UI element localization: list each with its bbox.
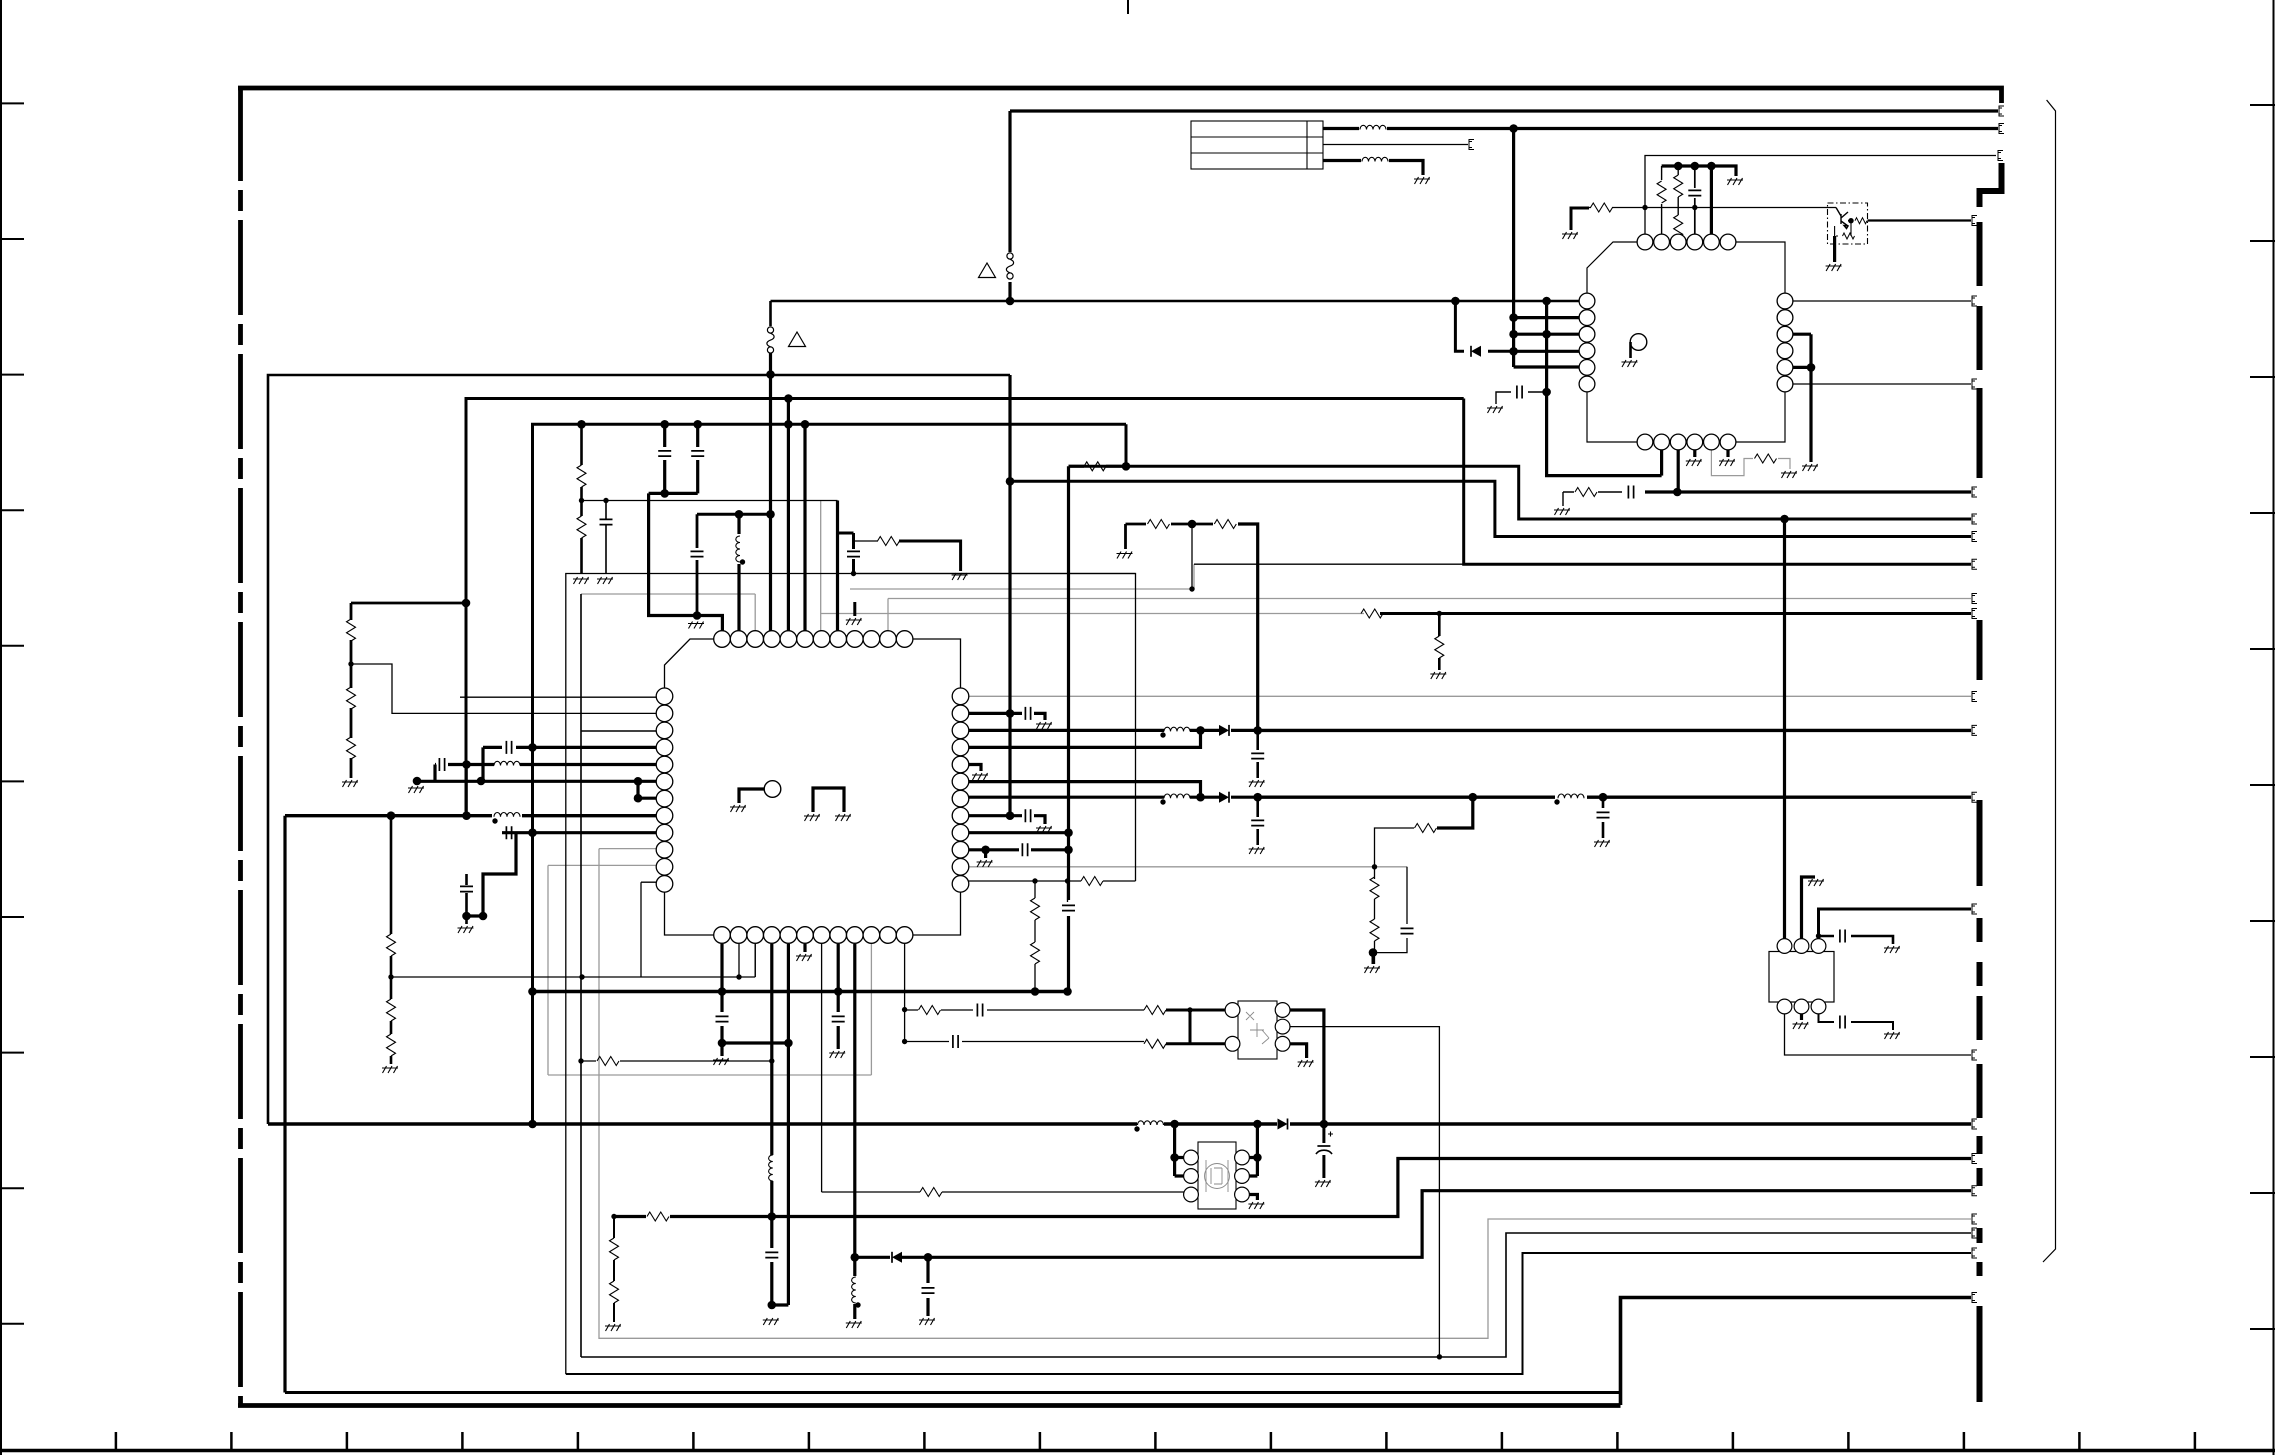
- wire pin8 drop: [836, 501, 839, 640]
- ground G-IC3b3: [1884, 1032, 1900, 1039]
- wire y573 thin tail: [854, 573, 1136, 575]
- wire IC3 cap t3: [1819, 936, 1894, 944]
- capacitor C-x1257b: [1251, 820, 1264, 825]
- wire row828: [467, 833, 657, 916]
- ground G-pin2r: [1036, 722, 1052, 729]
- wire y207 net: [1571, 208, 1836, 231]
- wire x614 divider: [613, 1217, 615, 1323]
- wire y486 bus: [1010, 481, 1971, 536]
- wire pin1-left thin: [460, 696, 656, 698]
- resistor R-y879: [1081, 877, 1103, 886]
- resistor R-y207: [1591, 203, 1613, 212]
- capacitor C-y1041: [953, 1035, 958, 1048]
- capacitor C-y485: [1628, 486, 1633, 499]
- wire y1257 to staircase: [928, 1191, 1971, 1258]
- wire IC2 top bus y166: [1662, 166, 1736, 176]
- ground G-x614: [605, 1324, 621, 1331]
- ground G-x606: [597, 577, 613, 584]
- capacitor C-pin8b: [832, 1016, 845, 1021]
- wire gray bus y598.5: [888, 598, 1971, 600]
- wire y1124 bus: [268, 1122, 1971, 1125]
- resistor R-t3a: [1674, 175, 1683, 197]
- wire IC1 right pin5 gnd: [968, 765, 981, 772]
- wire y977 thin: [391, 944, 755, 977]
- resistor R-y524a: [1148, 520, 1170, 529]
- IC2 pins left: [1579, 293, 1595, 392]
- wire R541 row: [854, 540, 879, 542]
- wire IC3 pin t3 net y909: [1819, 909, 1972, 939]
- wire IC1 bottom pin7 thin y1192: [822, 944, 1184, 1192]
- wire IC2 pin5 row: [1514, 365, 1587, 368]
- capacitor C-x1068: [1062, 905, 1075, 910]
- wire gray bus y589: [850, 564, 1194, 589]
- resistor R-y459 gray: [1755, 454, 1777, 463]
- GRAYNETS: [268, 111, 1998, 1405]
- resistor R-y524b: [1214, 520, 1236, 529]
- wire cap x466: [465, 765, 468, 925]
- wire inner border y375/x268: [268, 375, 1010, 1124]
- ground G-b4: [1686, 459, 1702, 466]
- wire y729 bus right: [1258, 729, 1971, 732]
- wire y613 thick right: [1380, 612, 1971, 615]
- wire pin12-left thin: [641, 882, 656, 977]
- ground G-Q201: [1826, 264, 1842, 271]
- wire IC1 right pin2 cap gnd: [968, 713, 1045, 720]
- IC1 main QFP body: [665, 639, 961, 935]
- wire x1546 drop: [1547, 301, 1662, 476]
- inductor L-row762: [494, 761, 520, 765]
- ground G-pin4b: [763, 1318, 779, 1325]
- wire y494 seg: [649, 492, 698, 495]
- wire row745: [483, 747, 656, 781]
- ground G-x1603: [1594, 840, 1610, 847]
- wire x697 filter: [696, 514, 699, 613]
- wire IC2 left bus x1513: [1512, 129, 1515, 368]
- wire IC2 bottom pin3: [1677, 449, 1680, 492]
- wire IC1 right pin3 row: [968, 729, 1258, 732]
- wire opto2 gnd: [1250, 1195, 1258, 1201]
- wire IC1 right pin7 row: [968, 796, 1258, 799]
- resistor R-y468: [1084, 462, 1106, 471]
- ground G-pin6b: [796, 954, 812, 961]
- optocoupler PC1 body: [1238, 1001, 1277, 1059]
- resistor R-x351b: [347, 687, 356, 709]
- resistor R-opto1b: [1144, 1039, 1166, 1048]
- wire IC1 pin1 top path: [649, 493, 723, 639]
- ground G-y541: [952, 573, 968, 580]
- wire switch SW2 drop: [1008, 111, 1011, 301]
- wire IC2 pin2 row: [1514, 316, 1587, 319]
- wire gray top-box y594: [581, 594, 755, 639]
- wire pin5 drop: [787, 399, 790, 640]
- wire IC1 right pin10 cap: [968, 850, 1069, 858]
- resistor R-x614b: [610, 1281, 619, 1303]
- wire IC3 pin b1 thin: [1785, 1014, 1972, 1055]
- wire x285 vertical: [283, 816, 286, 1393]
- capacitor C-y1010: [977, 1004, 982, 1017]
- wire opto1 out thin x1439: [1290, 1027, 1439, 1357]
- wire R1126 gnd leg: [1126, 524, 1258, 549]
- wire R828 thin lead: [1375, 828, 1415, 867]
- wire y505 thin: [582, 500, 838, 502]
- wire pin8 cap branch: [838, 533, 854, 574]
- wire IC1 bottom pin5: [787, 944, 790, 1305]
- inductor L-pin4b: [769, 1155, 773, 1181]
- IC3 small body: [1769, 952, 1834, 1003]
- IC1 pins right: [952, 688, 969, 892]
- capacitor C-pin1b: [716, 1016, 729, 1021]
- sheet border right hook: [1980, 163, 2002, 207]
- resistor R-x391a: [387, 934, 396, 956]
- PC2 internal mosfet: [1205, 1160, 1230, 1192]
- wire IC2 pin3 row: [1514, 333, 1587, 336]
- resistor R-x581b: [577, 516, 586, 538]
- ground G-x466: [458, 926, 474, 933]
- wire gray y865 from IC pin11: [968, 866, 1407, 868]
- wire IC1 right pin12 thin y879: [968, 880, 1136, 882]
- inductor L-row811: [494, 813, 520, 817]
- crystal X-IC2: [1757, 299, 1771, 313]
- ground G-pin9b: [846, 1321, 862, 1328]
- ground G-IC2r: [1802, 464, 1818, 471]
- wire IC1 right pin8 cap gnd: [968, 816, 1045, 824]
- wire y1217 net: [614, 1159, 1971, 1217]
- wire y144 thin: [1323, 144, 1468, 146]
- ground G-row778: [408, 786, 424, 793]
- wire x606 stubs: [605, 501, 607, 575]
- resistor R-y1010: [919, 1006, 941, 1015]
- ground G y161: [1414, 177, 1430, 184]
- wire x1257 caps: [1256, 730, 1259, 845]
- diode D-pin3r: [1219, 725, 1229, 736]
- PC2 pins: [1184, 1150, 1250, 1202]
- wire IC2 bottom pins45 gnd stubs: [1695, 449, 1728, 457]
- ground G-x581: [573, 577, 589, 584]
- capacitor C-row745: [506, 741, 511, 754]
- wire y564 thin link: [1194, 563, 1464, 565]
- wire y485 net: [1645, 490, 1971, 493]
- resistor R-t3b: [1674, 215, 1683, 237]
- wire IC2 pin t2: [1661, 166, 1663, 234]
- wire net SW1 y301: [771, 300, 1588, 303]
- capacitor C-x697b: [691, 551, 704, 556]
- capacitor C-pin10r: [1022, 843, 1027, 856]
- wire opto1 input thick jog: [1166, 1010, 1225, 1044]
- capacitor C-x1257a: [1251, 753, 1264, 758]
- wire IC3 pin t2 gnd: [1802, 877, 1816, 939]
- ground G-x1126: [1117, 552, 1133, 559]
- capacitor C-IC3b3: [1840, 1016, 1845, 1029]
- IC2 internal rho symbol: [1630, 334, 1647, 358]
- wire row778: [417, 781, 656, 798]
- inductor L-x739: [736, 536, 740, 562]
- capacitor C-x928: [922, 1288, 935, 1293]
- resistor R-x1035b: [1031, 942, 1040, 964]
- inductor L-y1124: [1138, 1121, 1164, 1125]
- resistor R-x391c: [387, 1034, 396, 1056]
- resistor R-y828: [1415, 824, 1437, 833]
- switch SW2: [1006, 253, 1013, 279]
- resistor R-x1374a: [1370, 877, 1379, 899]
- wire x1068 vertical: [1067, 466, 1070, 991]
- relay PC2 body: [1198, 1142, 1236, 1209]
- ground G-pin8r: [1036, 826, 1052, 833]
- wire y1061 thin: [581, 1060, 772, 1062]
- capacitor C-row828: [506, 826, 511, 839]
- wire y155 thin to edge: [1645, 156, 1996, 235]
- inductor L-pin7r: [1164, 794, 1190, 798]
- ground G-IC2l: [1487, 406, 1503, 413]
- inductor L-pin9b: [852, 1277, 856, 1303]
- connector CN top box: [1191, 121, 1323, 169]
- wire y468 bus: [1069, 424, 1972, 519]
- resistor R-y1216: [647, 1212, 669, 1221]
- inductor L y128: [1360, 125, 1386, 129]
- symbol triangle SW2: [979, 263, 996, 278]
- resistor R-x1035a: [1031, 898, 1040, 920]
- resistor R-opto1a: [1144, 1006, 1166, 1015]
- wire IC1 bottom pin1: [722, 944, 788, 1056]
- wire R-x1439 drop: [1438, 614, 1441, 671]
- ground G-x697: [688, 622, 704, 629]
- wire x581 stubs: [580, 424, 583, 574]
- wire box1 thin: [566, 574, 1136, 1375]
- resistor R-x391b: [387, 999, 396, 1021]
- switch SW1: [767, 327, 774, 353]
- ground G-IC3t2: [1808, 879, 1824, 886]
- resistor R-y485: [1575, 488, 1597, 497]
- IC2 pins bottom: [1637, 434, 1736, 450]
- wire pin6 drop: [803, 424, 806, 639]
- wire opto1 gnd: [1290, 1044, 1307, 1058]
- wire IC1 right pin4 row: [968, 730, 1201, 747]
- resistor R-y613: [1361, 609, 1383, 618]
- wire IC2 right pin1: [1793, 300, 1971, 302]
- capacitor C-row762: [439, 758, 444, 771]
- wire IC2 pin4 row: [1514, 350, 1587, 353]
- capacitor C-x1603: [1597, 812, 1610, 817]
- capacitor C-x697a: [691, 451, 704, 456]
- PC1 pins: [1225, 1003, 1290, 1052]
- sheet border dash-dot left: [238, 86, 243, 1405]
- ground G-x351: [342, 780, 358, 787]
- wire y424 bus: [533, 424, 1127, 1124]
- IC2 pins right: [1777, 293, 1793, 392]
- inductor L-y797: [1558, 794, 1584, 798]
- wire IC1 bottom pin12 RC rows: [905, 944, 1144, 1042]
- ground G-pin1b: [713, 1058, 729, 1065]
- wire left R chain x351: [351, 603, 466, 778]
- wire cap el x1324: [1322, 1124, 1325, 1178]
- wire thin x392 jog to pin2: [351, 664, 656, 713]
- sheet border top: [238, 88, 2002, 103]
- wire pin9 gnd stub: [853, 602, 856, 616]
- capacitor C-x466: [460, 886, 473, 891]
- wire y398 bus: [466, 399, 1464, 816]
- wire y564 to edge: [1464, 399, 1971, 565]
- wire IC1 bottom pin4: [772, 944, 789, 1305]
- wire IC3 pin b3 cap: [1819, 1014, 1894, 1030]
- capacitor C-x1407: [1401, 928, 1414, 933]
- wire R x1035 divider: [1034, 881, 1036, 992]
- wire y128: [1323, 127, 1998, 130]
- wire y795 bus right: [1258, 796, 1971, 799]
- ground G-x928: [919, 1318, 935, 1325]
- ground G-IC3t3: [1884, 946, 1900, 953]
- PC1 internals: [1246, 1012, 1269, 1044]
- ground G-b5: [1719, 459, 1735, 466]
- capacitor C-IC3t3: [1840, 930, 1845, 943]
- wire row762: [435, 765, 656, 782]
- wire pin2 inductor drop: [737, 514, 740, 639]
- wire gray y697 from IC pin1: [968, 695, 1971, 697]
- wire gray bus y613.5: [821, 613, 1364, 615]
- wire IC2 pin t5: [1710, 166, 1713, 234]
- inductor L y161: [1362, 157, 1388, 161]
- capacitor C-t4: [1688, 190, 1701, 195]
- capacitor C-x606: [600, 519, 613, 524]
- resistor R-y541: [878, 537, 900, 546]
- wire IC1 bottom pin6 gnd: [803, 944, 806, 952]
- IC1 pins bottom: [714, 927, 913, 944]
- resistor R-y1192: [920, 1188, 942, 1197]
- diode D-IC2: [1471, 346, 1481, 357]
- wire IC2 pin t4: [1694, 166, 1696, 234]
- wire IC1 bottom pin2 pin3 thin: [739, 944, 755, 977]
- IC1 pins left: [656, 688, 673, 892]
- ground G-y459: [1781, 471, 1797, 478]
- wire IC2 gray bottom tail: [1711, 449, 1790, 476]
- wire y111: [1010, 109, 1998, 112]
- resistor R-t2: [1657, 181, 1666, 203]
- wire IC2 right pin3 pin5: [1793, 334, 1811, 462]
- ground G-pin10r: [977, 860, 993, 867]
- diode D-y1124: [1278, 1119, 1288, 1130]
- right margin bracket: [2043, 100, 2056, 1262]
- wire y506 bus: [697, 513, 772, 516]
- sheet border bottom: [238, 1403, 1621, 1408]
- wire y1392 line: [285, 1391, 1621, 1394]
- IC1 internal ground symbol B: [813, 788, 844, 812]
- IC3 pins: [1777, 939, 1826, 1014]
- wire IC1 right pin6 row: [968, 782, 1201, 798]
- diode D-pin7r: [1219, 792, 1229, 803]
- ground G-opto1: [1298, 1060, 1314, 1067]
- diode D-pin9b: [892, 1252, 902, 1263]
- wire gray pin7 feed: [820, 501, 822, 640]
- wire RC divider x1374: [1374, 867, 1376, 964]
- ground G-y207: [1562, 232, 1578, 239]
- wire x1603 cap drop: [1602, 797, 1605, 838]
- resistor R-y1061: [597, 1057, 619, 1066]
- wire IC2 pin t3: [1677, 166, 1679, 242]
- wire x391 divider: [390, 816, 393, 1064]
- transistor Q201 dash box: [1828, 203, 1868, 262]
- resistor R-x1374b: [1370, 919, 1379, 941]
- wire IC1 bottom pin8: [837, 944, 840, 1049]
- ground G-pin9t: [846, 618, 862, 625]
- ground G-x391: [382, 1066, 398, 1073]
- resistor R-x351c: [347, 737, 356, 759]
- wire gray pin11 feed: [887, 599, 889, 640]
- wire y514 IC3 feed: [1783, 519, 1786, 939]
- resistor R-x581a: [577, 465, 586, 487]
- wire IC3 pin b2 gnd: [1800, 1014, 1803, 1020]
- IC1 internal ground symbol A: [739, 781, 781, 803]
- wire x1010 vertical: [1008, 375, 1011, 815]
- capacitor C-x663: [658, 451, 671, 456]
- sheet border right dashes: [1977, 222, 1983, 1402]
- wire box2: [581, 594, 1971, 1357]
- IC2 body: [1587, 242, 1785, 442]
- ground G-x1257a: [1249, 780, 1265, 787]
- IC1 pins top: [714, 631, 913, 648]
- wire right staircase y1297: [1621, 1298, 1972, 1406]
- wire x1472 jog: [1437, 797, 1473, 828]
- wire box1 bottom: [566, 1253, 1971, 1374]
- capacitor C-pin8r: [1025, 809, 1030, 822]
- resistor R-x351a: [347, 619, 356, 641]
- ground G-x1324: [1315, 1180, 1331, 1187]
- ground G-x1374: [1364, 966, 1380, 973]
- ground G-opto2: [1248, 1202, 1264, 1209]
- wire row811: [285, 814, 656, 817]
- wire R468 leads: [1069, 465, 1127, 468]
- IC2 pins top: [1637, 234, 1736, 250]
- wire C x1067 branch: [1067, 881, 1069, 902]
- capacitor C-x853: [847, 551, 860, 556]
- ground G-IC3b2: [1793, 1022, 1809, 1029]
- wire Q201 collector out y220: [1868, 219, 1972, 221]
- ground G-x1257b: [1249, 847, 1265, 854]
- wire y991 bus: [533, 990, 1069, 993]
- wire y161 to ground: [1323, 161, 1423, 176]
- wire thin drop x1192: [1191, 524, 1193, 589]
- wire opto1 out x1324: [1290, 1010, 1324, 1124]
- ground G-y485: [1554, 508, 1570, 515]
- resistor R-x614a: [610, 1238, 619, 1260]
- symbol triangle SW1: [789, 332, 806, 347]
- capacitor C-el x1324: [1316, 1132, 1333, 1155]
- resistor R-x1439: [1435, 636, 1444, 658]
- wire IC1 right pin9: [968, 831, 1069, 834]
- connector edge stubs: [1469, 106, 2004, 1303]
- wire switch SW1 stem: [769, 301, 772, 326]
- wire IC1 bottom pin9 diode row: [853, 944, 856, 1319]
- wire diode D-IC2 feed: [1455, 301, 1513, 351]
- wire IC2 bottom pin2 drop: [1660, 449, 1663, 476]
- ground G-pin5r: [972, 773, 988, 780]
- wire gray y1075: [548, 849, 871, 1075]
- wire IC2 right pin6: [1793, 383, 1971, 385]
- capacitor C-pin2r: [1025, 707, 1030, 720]
- inductor L-pin3r: [1164, 727, 1190, 731]
- ground G-x1439: [1430, 672, 1446, 679]
- capacitor C-pin4b: [765, 1252, 778, 1257]
- ground G-pin8b: [829, 1051, 845, 1058]
- wire cap C-IC2l leads: [1496, 392, 1547, 404]
- wire opto2 left feed: [1175, 1124, 1184, 1176]
- ground G-t bus: [1727, 178, 1743, 185]
- capacitor C-IC2l: [1517, 386, 1522, 399]
- wire pin4 switch drop: [769, 353, 772, 639]
- wire opto2 right collect: [1250, 1124, 1258, 1176]
- wire gray inner box3: [599, 849, 1971, 1339]
- wire cap stubs x663 x697: [665, 424, 698, 493]
